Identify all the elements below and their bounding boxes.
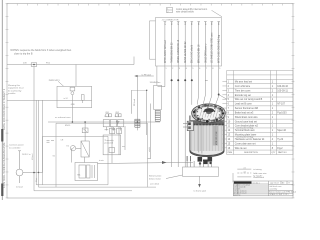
svg-text:SHLD DRN bare w: SHLD DRN bare w — [204, 43, 207, 63]
svg-text:SENS LEAD2 GN 22: SENS LEAD2 GN 22 — [184, 41, 187, 63]
svg-text:to controller: to controller — [9, 146, 21, 149]
svg-text:CB1: CB1 — [105, 112, 109, 114]
svg-text:SCALE 1:2 SHT 1 OF 1: SCALE 1:2 SHT 1 OF 1 — [270, 193, 289, 196]
svg-text:Sensor thermal set AB: Sensor thermal set AB — [235, 107, 259, 110]
svg-text:shield: shield — [149, 147, 151, 152]
svg-text:Lead set B conn: Lead set B conn — [235, 103, 253, 106]
svg-text:L1 feed: L1 feed — [32, 154, 34, 160]
svg-text:Hardware set inc fastener kit: Hardware set inc fastener kit — [235, 138, 265, 141]
svg-text:Flg-2: Flg-2 — [277, 148, 283, 150]
svg-text:Flg-1003: Flg-1003 — [277, 112, 287, 114]
svg-text:protected: protected — [104, 142, 114, 145]
svg-text:P8: P8 — [212, 22, 214, 24]
svg-text:WNDG CONN3 RD 16: WNDG CONN3 RD 16 — [178, 39, 180, 63]
svg-text:QTY: QTY — [271, 152, 276, 154]
svg-text:to frame gnd: to frame gnd — [194, 190, 207, 193]
svg-text:Bottom plate: Bottom plate — [149, 175, 162, 178]
svg-text:Encoder sig set: Encoder sig set — [235, 94, 251, 97]
svg-text:8: 8 — [212, 68, 213, 70]
svg-text:enc: enc — [205, 80, 208, 82]
svg-text:P2: P2 — [172, 22, 174, 24]
svg-text:Servo motor asm P/N 100-1: Servo motor asm P/N 100-1 — [269, 191, 297, 194]
svg-text:THRM SENS BK 22: THRM SENS BK 22 — [172, 42, 174, 63]
svg-text:CB2: CB2 — [115, 112, 119, 114]
svg-text:Mtr asm lead set: Mtr asm lead set — [235, 81, 253, 84]
svg-text:Thrm dev conn: Thrm dev conn — [235, 89, 251, 92]
svg-text:Warning this: Warning this — [8, 84, 21, 87]
svg-text:to load: to load — [16, 186, 23, 189]
svg-text:PWR SPLY: PWR SPLY — [49, 80, 61, 82]
svg-text:9: 9 — [219, 68, 220, 70]
svg-text:J1 CONNECTOR: J1 CONNECTOR — [162, 19, 179, 21]
svg-text:Cover plate asm set: Cover plate asm set — [235, 142, 256, 145]
svg-text:assembly: assembly — [270, 188, 278, 190]
svg-text:Ty-22: Ty-22 — [277, 139, 284, 141]
svg-text:below motor: below motor — [149, 177, 161, 180]
svg-text:NT-107: NT-107 — [277, 104, 285, 106]
svg-text:ENC A SIG shield: ENC A SIG shield — [191, 44, 194, 63]
svg-text:TB1: TB1 — [77, 175, 80, 177]
svg-text:P9: P9 — [219, 22, 221, 24]
svg-text:24VDC in: 24VDC in — [22, 154, 31, 156]
svg-text:MTR CASE GND SHLD lug: MTR CASE GND SHLD lug — [218, 34, 221, 63]
svg-text:asm detail: asm detail — [150, 183, 160, 186]
svg-text:aux: aux — [122, 146, 125, 148]
svg-text:CONTROL WIRING DIAGRAM ASM: CONTROL WIRING DIAGRAM ASM — [2, 142, 6, 188]
svg-text:PE lead: PE lead — [134, 99, 136, 106]
svg-text:PART NO: PART NO — [278, 151, 287, 154]
svg-text:P6: P6 — [199, 22, 201, 24]
svg-text:shield bond: shield bond — [253, 177, 264, 179]
svg-text:appr 10-02: appr 10-02 — [270, 183, 279, 185]
svg-text:GND: GND — [71, 104, 76, 106]
svg-text:Ground case lead set: Ground case lead set — [235, 120, 257, 123]
svg-text:120VA Xfmr: 120VA Xfmr — [150, 81, 161, 84]
svg-text:installer: installer — [8, 92, 16, 95]
svg-text:Conn shld wire: Conn shld wire — [235, 85, 251, 88]
svg-text:equipment must: equipment must — [8, 87, 24, 90]
svg-text:P7: P7 — [205, 22, 207, 24]
svg-text:w2: w2 — [244, 171, 246, 173]
svg-text:P1: P1 — [165, 22, 167, 24]
svg-text:3: 3 — [179, 68, 180, 70]
svg-text:Wire set mtr wndg A and B: Wire set mtr wndg A and B — [235, 98, 263, 101]
svg-text:NOTES: sequence the fields fro: NOTES: sequence the fields from X when e… — [11, 49, 72, 52]
svg-text:Spec-10: Spec-10 — [277, 130, 286, 132]
svg-text:MTR LOAD1 WH lead: MTR LOAD1 WH lead — [164, 40, 167, 63]
svg-text:5: 5 — [192, 68, 193, 70]
svg-text:4: 4 — [186, 68, 187, 70]
svg-text:MTR 100-1 SN: MTR 100-1 SN — [216, 131, 218, 145]
svg-text:appd hg: appd hg — [234, 194, 241, 196]
svg-text:2: 2 — [172, 68, 173, 70]
svg-text:DWG 100-0020 REV C SHEET 1: DWG 100-0020 REV C SHEET 1 — [2, 88, 6, 130]
svg-text:Thermally: Thermally — [104, 139, 114, 142]
svg-text:100-00-11: 100-00-11 — [277, 90, 288, 92]
svg-text:7: 7 — [206, 68, 207, 70]
svg-text:A3: A3 — [282, 181, 284, 184]
svg-text:to mtr: to mtr — [99, 159, 104, 162]
svg-text:DESCRIPTION: DESCRIPTION — [244, 152, 258, 154]
svg-text:close to trip the B: close to trip the B — [14, 53, 33, 56]
svg-text:Connect power: Connect power — [9, 144, 24, 147]
svg-text:int wiring: int wiring — [253, 168, 262, 171]
svg-text:rev doc c: rev doc c — [253, 183, 260, 185]
svg-text:as relevant asm: as relevant asm — [55, 116, 71, 119]
svg-text:Brake lead set w3: Brake lead set w3 — [235, 111, 254, 114]
svg-text:5: 5 — [117, 123, 118, 125]
svg-text:in 24: in 24 — [64, 98, 68, 100]
svg-text:ENCL: ENCL — [65, 125, 71, 127]
svg-text:1: 1 — [166, 68, 167, 70]
svg-text:P5: P5 — [192, 22, 194, 24]
svg-text:N ret: N ret — [35, 177, 38, 182]
svg-text:LD SHIELD CONN GRD case: LD SHIELD CONN GRD case — [212, 32, 214, 63]
svg-text:field conn wire: field conn wire — [253, 172, 267, 175]
svg-text:24V: 24V — [23, 62, 27, 64]
svg-text:Wire tie set: Wire tie set — [235, 147, 247, 150]
svg-text:ITEM: ITEM — [227, 152, 232, 154]
svg-text:100-00-10: 100-00-10 — [277, 86, 288, 88]
svg-text:Terminal block asm: Terminal block asm — [235, 129, 255, 132]
svg-text:wire detail below: wire detail below — [176, 11, 194, 14]
svg-text:be earthed by: be earthed by — [8, 89, 22, 92]
svg-text:BRK LEAD BN 18: BRK LEAD BN 18 — [198, 44, 201, 63]
svg-text:6: 6 — [199, 68, 200, 70]
svg-text:P4: P4 — [185, 22, 187, 24]
svg-text:to PE gnd: to PE gnd — [142, 73, 152, 76]
svg-text:w1: w1 — [244, 167, 246, 169]
svg-text:P3: P3 — [178, 22, 180, 24]
svg-text:Shield drain conn wire: Shield drain conn wire — [235, 116, 259, 119]
